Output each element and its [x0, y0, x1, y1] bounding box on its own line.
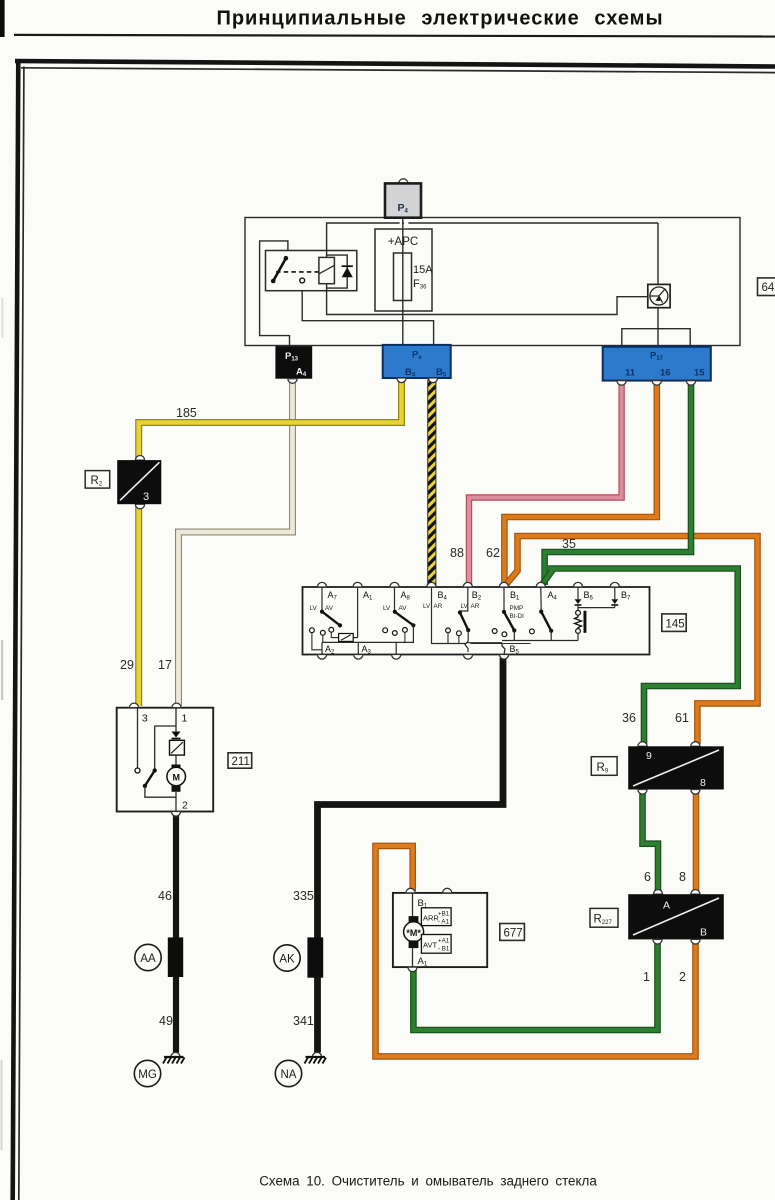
- svg-text:6: 6: [644, 870, 651, 884]
- resistor R9: [628, 742, 724, 794]
- wire bracket to P17 pins 11 and 15: [622, 329, 690, 347]
- module 145 body: [303, 587, 650, 655]
- cell dividers: [353, 587, 530, 644]
- contact circle A4 cell: [530, 629, 535, 634]
- pin drop A2: [321, 642, 323, 654]
- label box R2: [85, 471, 110, 489]
- switch B1: [502, 587, 517, 641]
- diode D: [342, 267, 353, 277]
- svg-text:LV: LV: [383, 605, 391, 612]
- wire orange R9 pin8 to R227 pin8: [693, 792, 700, 892]
- wire black-yellow striped (Pa B5 to 145 B4): [428, 380, 436, 587]
- node NA: [275, 1060, 301, 1086]
- svg-text:16: 16: [660, 368, 671, 379]
- svg-text:AK: AK: [279, 954, 295, 966]
- wire joining B6 B7 diodes: [578, 607, 615, 609]
- svg-text:Принципиальные электрические с: Принципиальные электрические схемы: [216, 8, 663, 30]
- svg-text:*M*: *M*: [406, 928, 421, 938]
- svg-text:9: 9: [646, 750, 652, 762]
- svg-text:88: 88: [450, 546, 464, 560]
- svg-text:MG: MG: [138, 1069, 157, 1081]
- svg-text:AV: AV: [399, 605, 408, 612]
- motor M: [172, 765, 181, 771]
- connector P17: [603, 347, 711, 381]
- wire pink 88 (P17 pin11 to 145 B2): [469, 382, 622, 585]
- connector Pa: [383, 345, 451, 379]
- ground (right chain): [305, 1052, 327, 1063]
- ground (left chain): [163, 1052, 185, 1063]
- wire beige 17 (P13 A4 to 211 pin1): [179, 380, 293, 706]
- svg-text:645: 645: [762, 282, 775, 294]
- svg-text:46: 46: [158, 889, 172, 903]
- svg-text:AV: AV: [325, 605, 334, 612]
- pin drop B5: [502, 643, 505, 655]
- label box 645: [758, 278, 775, 296]
- svg-text:- A1: - A1: [438, 919, 450, 926]
- position labels: [310, 603, 525, 620]
- svg-text:LV: LV: [310, 605, 318, 612]
- svg-text:AR: AR: [471, 603, 480, 610]
- svg-text:2: 2: [679, 970, 686, 984]
- heater resistor in A7 cell: [339, 634, 354, 642]
- timer clock symbol: [648, 284, 670, 307]
- node AK: [274, 945, 300, 971]
- relay output terminal: [300, 278, 305, 283]
- wire yellow 185/29 (Pa B4 to R2 to 211 pin3): [139, 380, 402, 706]
- resistor R227: [628, 890, 724, 944]
- svg-text:A: A: [663, 900, 670, 912]
- pump 677 body: [393, 893, 487, 967]
- svg-text:11: 11: [625, 368, 636, 379]
- relay switch blade: [273, 258, 286, 281]
- wire relay switch to P13: [260, 241, 290, 347]
- switch B2: [458, 587, 471, 652]
- wire black 46/49 (211 pin2 to MG ground): [173, 813, 179, 1053]
- common rail right: [502, 640, 578, 642]
- label box R227: [590, 908, 618, 927]
- pin bumps bottom: [317, 655, 326, 660]
- contact circles B4 cell: [446, 628, 462, 636]
- wire pin1 down: [175, 708, 177, 732]
- relay coil: [319, 257, 335, 283]
- svg-text:AVT: AVT: [423, 941, 437, 950]
- scan mark top-left: [0, 0, 5, 37]
- svg-text:- B1: - B1: [438, 946, 450, 953]
- svg-text:29: 29: [120, 658, 134, 672]
- motor 211 body: [117, 708, 214, 812]
- svg-text:PMP: PMP: [510, 605, 524, 612]
- node MG: [134, 1060, 160, 1086]
- wire black B5 ground (145 B5 to AK to NA ground): [318, 658, 504, 1053]
- svg-text:1: 1: [643, 970, 650, 984]
- label box R9: [591, 757, 617, 776]
- frame top thick: [15, 61, 775, 67]
- wire clock to P17 pin 16: [657, 308, 659, 347]
- frame left thin: [19, 67, 24, 1200]
- svg-text:AA: AA: [140, 953, 156, 965]
- svg-text:M: M: [172, 773, 180, 783]
- wire pin3 to contact: [137, 708, 139, 768]
- diode on B7: [611, 587, 618, 608]
- svg-text:AR: AR: [434, 603, 443, 610]
- svg-text:335: 335: [293, 889, 314, 903]
- wire P4 feed through fuse: [402, 218, 404, 346]
- svg-text:341: 341: [293, 1014, 314, 1028]
- svg-text:BI-DI: BI-DI: [510, 613, 525, 620]
- connector P13: [275, 346, 312, 379]
- frame top thin: [21, 68, 775, 73]
- connector exit bumps (over wires): [288, 378, 696, 385]
- pin bumps top: [317, 582, 326, 587]
- scan smudge marks left edge: [1, 640, 3, 700]
- svg-text:1: 1: [182, 713, 188, 725]
- svg-text:+APC: +APC: [388, 236, 418, 248]
- diode on B6: [575, 587, 582, 610]
- common rail left A2 A3: [322, 641, 414, 643]
- svg-text:+B1: +B1: [438, 911, 450, 918]
- switch A8: [393, 587, 416, 643]
- svg-text:+A1: +A1: [438, 938, 450, 945]
- wire orange 62 (P17 pin16 to 145 B1): [504, 382, 656, 585]
- thermal resistor chain under B6: [575, 610, 587, 640]
- svg-text:61: 61: [675, 711, 689, 725]
- svg-text:185: 185: [176, 406, 197, 420]
- frame left thick: [13, 59, 19, 1200]
- svg-text:677: 677: [504, 928, 523, 940]
- switch A4: [539, 587, 553, 641]
- wire internal loop (coil-clock circuit): [327, 223, 658, 315]
- gap break in loop line at P4 wire: [400, 222, 402, 228]
- pin drop 396: [395, 642, 397, 654]
- wire relay output to Pa pin B5: [302, 283, 433, 345]
- svg-text:NA: NA: [281, 1069, 297, 1081]
- contact circles B1 cell: [492, 629, 506, 637]
- svg-text:62: 62: [486, 546, 500, 560]
- svg-text:36: 36: [622, 711, 636, 725]
- splice connector on B5 ground wire: [307, 937, 323, 977]
- wire orange 2 (R227 B to 677 B1): [376, 846, 696, 1057]
- relay body: [266, 251, 357, 291]
- svg-text:15A: 15A: [413, 264, 433, 276]
- switch blade 211: [153, 768, 157, 772]
- connector P4: [385, 179, 421, 218]
- svg-text:B: B: [700, 927, 707, 939]
- svg-text:3: 3: [143, 491, 149, 503]
- svg-text:LV: LV: [423, 603, 431, 610]
- svg-text:8: 8: [679, 870, 686, 884]
- contact circles A8 cell: [383, 628, 407, 636]
- wire green R9 pin to R227 pin6: [643, 792, 659, 892]
- fuse F36 15A: [394, 253, 412, 301]
- thermal element: [170, 740, 185, 755]
- mode box AVT: [421, 935, 451, 954]
- svg-text:ARR: ARR: [423, 914, 439, 923]
- svg-text:3: 3: [142, 713, 148, 725]
- splice connector on 211 ground wire: [168, 937, 183, 977]
- unit box 645 outline: [245, 218, 740, 346]
- relay actuator dashed link: [276, 271, 319, 273]
- contact circles A7 cell: [310, 627, 334, 635]
- svg-text:2: 2: [182, 800, 188, 812]
- label box 677: [500, 924, 525, 941]
- label box 211: [228, 753, 252, 768]
- wire green 36 (145 A4 loop to R9 pin9): [543, 569, 738, 745]
- wire orange 61 (145 B1 loop to R9): [507, 536, 758, 744]
- relay K (in unit): [266, 251, 357, 291]
- svg-text:49: 49: [159, 1014, 173, 1028]
- label box 145: [662, 614, 686, 632]
- svg-text:15: 15: [694, 368, 705, 379]
- resistor R2: [117, 456, 161, 509]
- diode in 211: [172, 732, 181, 738]
- diode branch wire: [327, 255, 348, 288]
- fuse holder +APC: [375, 229, 433, 311]
- svg-text:Схема 10. Очиститель и омывате: Схема 10. Очиститель и омыватель заднего…: [259, 1174, 597, 1189]
- title rule: [14, 35, 775, 37]
- wire green 35 (P17 pin15 to 145 A4): [545, 382, 691, 585]
- wire green 1 (R227 to 677 A1): [413, 942, 657, 1030]
- svg-text:35: 35: [562, 537, 576, 551]
- svg-text:17: 17: [158, 658, 172, 672]
- branch to switch pivot: [155, 726, 176, 771]
- svg-text:145: 145: [666, 618, 685, 630]
- pin drop A3: [357, 642, 359, 654]
- wire clock feed: [657, 223, 659, 284]
- svg-text:211: 211: [232, 756, 250, 768]
- svg-text:8: 8: [700, 777, 706, 789]
- motor M pump: [412, 893, 414, 917]
- mode box ARR: [421, 908, 451, 926]
- node AA: [135, 944, 161, 970]
- switch A7: [320, 587, 342, 628]
